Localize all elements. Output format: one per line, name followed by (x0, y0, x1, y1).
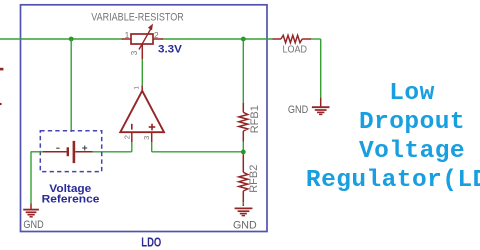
pin number 1 (VR) (125, 30, 130, 40)
svg-text:3: 3 (130, 50, 139, 55)
stub: cut-off component at left edge (upper mark) (0, 68, 3, 71)
label: RFB2 (rotated) (248, 165, 260, 193)
wire: RFB1 to feedback node (242, 142, 244, 155)
label: GND (below RFB2) (233, 220, 257, 232)
svg-text:GND: GND (288, 104, 308, 116)
svg-text:LOAD: LOAD (282, 44, 307, 56)
svg-text:3: 3 (142, 136, 151, 140)
ground symbol GND (below RFB2) (235, 208, 253, 215)
svg-text:2: 2 (122, 135, 131, 139)
svg-text:Regulator(LDO): Regulator(LDO) (306, 167, 480, 194)
svg-text:RFB2: RFB2 (248, 165, 260, 193)
svg-text:3.3V: 3.3V (158, 43, 183, 55)
pin number 2 (op-amp, rotated) (122, 135, 131, 139)
label: VARIABLE-RESISTOR (91, 12, 184, 24)
wire: battery branch vertical (70, 39, 72, 132)
junction: node VOUT / feedback branch (241, 37, 246, 42)
stub: cut-off component at left edge (lower mark) (0, 103, 2, 105)
wire: LOAD to GND drop (311, 39, 321, 98)
label: GND (load return) (288, 104, 308, 116)
label: RFB1 (rotated) (249, 105, 261, 133)
svg-text:GND: GND (23, 219, 43, 231)
svg-text:Reference: Reference (42, 194, 100, 206)
label: LOAD (282, 44, 307, 56)
dashed box: voltage reference group (40, 131, 101, 172)
label: GND (bottom left) (23, 219, 43, 231)
wire: battery - to GND branch (31, 152, 44, 204)
title: Low Dropout Voltage Regulator(LDO) (306, 80, 480, 194)
wire: stub in RFB2 ground lead (242, 202, 244, 205)
resistor RFB1 (239, 103, 248, 142)
pin number 1 (op-amp output, rotated) (133, 86, 140, 90)
svg-text:Low: Low (389, 80, 434, 107)
ground symbol GND (load return) (312, 98, 330, 115)
svg-text:Voltage: Voltage (359, 138, 465, 165)
resistor LOAD (273, 35, 312, 42)
svg-text:Dropout: Dropout (359, 109, 465, 136)
wire: VR wiper to op-amp output apex (141, 59, 143, 85)
variable resistor wiper arrow (139, 24, 153, 50)
junction: node VIN / battery branch (69, 37, 74, 42)
wire: feedback branch vertical to RFB1 (242, 39, 244, 103)
op-amp non-inverting input mark (+) (149, 124, 156, 131)
ground symbol GND (bottom left) (23, 203, 39, 216)
svg-text:1: 1 (133, 86, 140, 90)
svg-text:VARIABLE-RESISTOR: VARIABLE-RESISTOR (91, 12, 184, 24)
wire: VR pin 2 to LOAD (crosses frame) (163, 38, 273, 40)
label: LDO (module name) (141, 234, 161, 249)
resistor RFB2 (239, 155, 248, 207)
junction: feedback node (241, 150, 246, 155)
svg-text:1: 1 (125, 30, 130, 40)
battery minus sign (56, 147, 59, 149)
op-amp U1 triangle (120, 91, 164, 132)
label: Voltage Reference (42, 183, 100, 206)
wire: op-amp non-inverting input down and to feedback node (152, 142, 244, 152)
op-amp pin 2 stub (131, 132, 133, 142)
svg-text:2: 2 (154, 30, 159, 40)
wire: VIN net, left edge to VR pin 1 (0, 38, 122, 40)
svg-text:GND: GND (233, 220, 257, 232)
battery G1 (voltage reference) (43, 141, 93, 163)
svg-text:RFB1: RFB1 (249, 105, 261, 133)
op-amp pin 1 stub (output) (141, 85, 143, 91)
value label: 3.3V (158, 43, 183, 55)
pin number 3 (op-amp, rotated) (142, 136, 151, 140)
frame: LDO module boundary box (21, 5, 268, 232)
op-amp pin 3 stub (151, 132, 153, 142)
op-amp inverting input mark (-) (131, 124, 133, 130)
svg-text:LDO: LDO (141, 234, 161, 249)
variable resistor R1 body (122, 34, 164, 59)
battery plus sign (82, 146, 87, 151)
pin number 2 (VR) (154, 30, 159, 40)
pin number 3 (VR, rotated) (130, 50, 139, 55)
wire: op-amp inverting input down and to battery + (93, 142, 132, 152)
